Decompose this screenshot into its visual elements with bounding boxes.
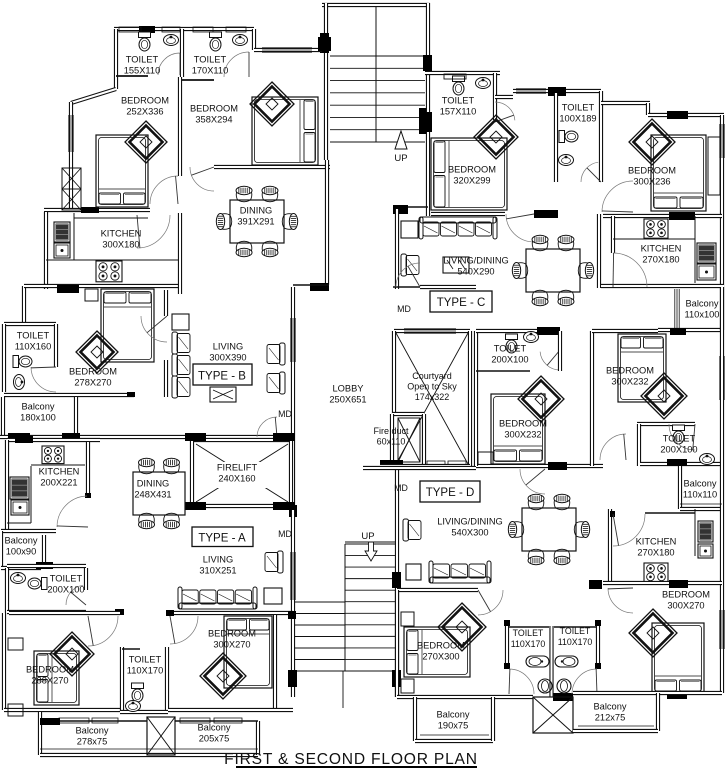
stair landing center line — [342, 671, 344, 708]
wc toilet center — [506, 334, 518, 353]
window courtyard bottom wall — [427, 461, 445, 467]
stair treads bottom left flight — [295, 601, 345, 603]
svg-text:300X232: 300X232 — [611, 376, 648, 386]
toilet 155 bottom wall — [116, 75, 148, 77]
wardrobe boxes bedroom 270X300 — [401, 612, 414, 626]
svg-text:240X160: 240X160 — [218, 473, 255, 483]
dining table Type B — [230, 200, 284, 243]
type A kitchen left wall — [5, 440, 9, 531]
diagonal outer wall — [71, 89, 116, 103]
svg-text:200X100: 200X100 — [47, 584, 84, 594]
balcony 212x75 — [656, 693, 660, 731]
window frames top wall — [119, 27, 141, 32]
bedroom 300X236 bottom wall — [603, 214, 722, 218]
svg-text:FIRELIFT: FIRELIFT — [217, 462, 258, 472]
basin toilet A — [11, 573, 26, 584]
basin toilet right — [700, 454, 715, 465]
door kitchen C — [613, 253, 647, 287]
right outer wall mid — [720, 287, 724, 464]
svg-text:Balcony: Balcony — [75, 725, 108, 735]
door toilet 157 — [495, 102, 515, 120]
svg-text:TOILET: TOILET — [663, 433, 696, 443]
svg-text:Balcony: Balcony — [21, 401, 54, 411]
basin toilet 110x160 — [14, 375, 25, 390]
svg-text:212x75: 212x75 — [595, 712, 626, 722]
dining table type C — [526, 249, 580, 292]
balcony bottom wall row — [0, 435, 295, 439]
svg-text:Fire duct: Fire duct — [373, 426, 409, 436]
svg-text:MD: MD — [278, 529, 292, 539]
svg-text:180x100: 180x100 — [20, 412, 56, 422]
svg-text:270X300: 270X300 — [422, 651, 459, 661]
left outer wall bedroom 252 — [69, 102, 73, 212]
svg-text:190x75: 190x75 — [438, 720, 469, 730]
door bedroom 252 — [150, 176, 178, 204]
kitchen B stove — [96, 261, 122, 282]
shaft crosshatch box — [62, 168, 81, 189]
svg-text:BEDROOM: BEDROOM — [606, 365, 654, 375]
svg-text:BEDROOM: BEDROOM — [69, 366, 117, 376]
type A living bottom wall — [9, 611, 120, 615]
svg-text:LIVING: LIVING — [203, 554, 233, 564]
door bedroom 320 — [506, 214, 534, 242]
svg-text:TOILET: TOILET — [562, 102, 595, 112]
column bottom wall D — [553, 693, 573, 701]
kitchen C bottom wall — [601, 284, 724, 288]
bedroom 320 bottom wall — [431, 212, 505, 216]
svg-text:TYPE - C: TYPE - C — [437, 297, 486, 309]
TV table type C — [443, 257, 469, 273]
diamond bedroom 300X270 D — [629, 609, 677, 657]
toilet 157 right wall — [493, 73, 497, 120]
bedroom 300X232 C-right bed — [618, 334, 666, 402]
toilet A bottom wall — [7, 610, 86, 614]
door bedroom 288 — [88, 616, 118, 646]
bed bedroom 300X270 D — [652, 623, 704, 694]
diamond bedroom 300X232 D — [518, 376, 564, 422]
svg-text:TOILET: TOILET — [129, 654, 162, 664]
stair landing right wall — [426, 162, 430, 216]
type C box — [430, 291, 492, 312]
svg-text:278X270: 278X270 — [74, 377, 111, 387]
kitchen B bottom wall — [44, 284, 181, 288]
twin toilet basin right — [555, 656, 578, 667]
kitchen D bottom wall — [603, 581, 722, 585]
column courtyard bottom — [380, 460, 403, 469]
window left bedroom 252 — [68, 115, 70, 152]
armchair type C — [401, 254, 419, 276]
svg-text:KITCHEN: KITCHEN — [641, 243, 682, 253]
bottom wall bedroom 288 — [4, 708, 120, 712]
door toilet A — [66, 585, 83, 605]
diamond bedroom 288 — [50, 632, 94, 676]
door toilet 155 — [158, 53, 180, 75]
hatch box between balconies A — [147, 717, 175, 755]
svg-text:110x110: 110x110 — [683, 489, 717, 499]
toilet 170 right wall — [252, 29, 256, 50]
window left wall C — [419, 108, 426, 134]
sofa type A — [179, 603, 256, 609]
right outer wall upper — [720, 115, 724, 287]
bed bedroom 300X232 D — [491, 394, 545, 464]
balcony 190x75 — [413, 697, 417, 741]
column stair right wall — [392, 572, 401, 588]
balcony 180x100 walls — [1, 397, 5, 437]
svg-text:157X110: 157X110 — [440, 106, 477, 116]
living B sofa left column — [172, 332, 190, 354]
svg-text:300X270: 300X270 — [213, 639, 250, 649]
balcony 110x100 — [674, 289, 676, 328]
svg-text:358X294: 358X294 — [195, 114, 232, 124]
door toilet center — [540, 352, 560, 370]
svg-text:TYPE - D: TYPE - D — [426, 487, 475, 499]
bedroom 278 bottom wall — [4, 393, 134, 397]
kitchen C left wall — [597, 214, 601, 288]
wall step toilet157 — [495, 95, 513, 99]
bedroom 288 left outer wall — [2, 613, 6, 710]
kitchen bottom wall jog — [24, 284, 46, 288]
column kitchen B — [57, 285, 79, 293]
svg-text:300X180: 300X180 — [102, 239, 139, 249]
kitchen D sink unit — [698, 521, 713, 542]
kitchen D stove — [644, 563, 668, 582]
outer wall step1 — [601, 101, 650, 105]
basin toilet 100x189 — [559, 155, 574, 166]
svg-text:UP: UP — [361, 531, 374, 542]
kitchen B sink — [54, 222, 70, 242]
window right wall bedroom D — [719, 610, 721, 649]
svg-text:200X100: 200X100 — [660, 444, 697, 454]
stair flight top edge — [345, 541, 396, 543]
window right wall mid — [719, 356, 721, 400]
svg-text:170X110: 170X110 — [192, 65, 229, 75]
basin toilet 170 — [233, 35, 248, 46]
toilet 157 fixtures — [453, 76, 465, 95]
svg-text:BEDROOM: BEDROOM — [26, 664, 74, 674]
kitchen D counter — [694, 509, 696, 556]
type A kitchen right wall — [86, 442, 90, 497]
type A kitchen stove — [42, 446, 64, 464]
svg-text:TOILET: TOILET — [194, 54, 227, 64]
svg-text:200X100: 200X100 — [491, 354, 528, 364]
bedroom 358 bottom wall — [214, 165, 330, 169]
kitchen C stove — [644, 219, 668, 238]
toilet 200X100 A walls — [7, 564, 86, 568]
living B TV table — [210, 387, 236, 402]
svg-text:270X180: 270X180 — [637, 547, 674, 557]
svg-text:100X189: 100X189 — [559, 113, 596, 123]
svg-text:300X390: 300X390 — [209, 352, 246, 362]
toilet divider wall — [180, 29, 184, 77]
column block stair left — [320, 33, 329, 53]
armchair type D — [403, 519, 421, 541]
diamond bedroom 300X232 right — [641, 373, 687, 419]
living B right wall — [291, 287, 295, 438]
left outer wall toilet 155 — [114, 29, 118, 89]
right outer wall kitchen D — [720, 509, 724, 693]
svg-text:200X221: 200X221 — [40, 477, 77, 487]
basin toilet center — [524, 332, 539, 343]
svg-text:DINING: DINING — [137, 478, 170, 488]
jog wall dining-living B — [293, 284, 329, 286]
bedside table bed 288 lower — [8, 704, 23, 716]
column block lobby left — [289, 505, 297, 517]
bed bedroom 320X299 — [431, 138, 507, 210]
svg-text:Balcony: Balcony — [4, 535, 37, 545]
svg-text:110x100: 110x100 — [685, 309, 720, 319]
kitchen B counter unit — [54, 243, 70, 258]
type A kitchen counter unit — [11, 500, 29, 515]
wall living D / bedroom — [397, 588, 478, 592]
svg-text:540X300: 540X300 — [451, 527, 488, 537]
door bedroom 300X270 D — [608, 588, 633, 613]
svg-text:BEDROOM: BEDROOM — [448, 164, 496, 174]
svg-text:LOBBY: LOBBY — [332, 383, 363, 393]
svg-text:110X170: 110X170 — [127, 665, 164, 675]
diamond bedroom 300X270 A — [200, 653, 246, 699]
svg-text:TOILET: TOILET — [560, 626, 591, 636]
svg-text:BEDROOM: BEDROOM — [628, 165, 676, 175]
armchair type A — [265, 551, 283, 573]
toilet 200X100 center walls — [474, 331, 478, 373]
svg-text:MD: MD — [394, 483, 408, 493]
door bedroom 300X232 D — [520, 469, 545, 494]
diamond bedroom 320 — [474, 115, 518, 159]
bed bedroom 300X270 A — [224, 616, 272, 688]
svg-text:KITCHEN: KITCHEN — [636, 536, 677, 546]
window frames bottom wall A — [59, 718, 89, 723]
svg-text:TYPE - B: TYPE - B — [198, 371, 246, 383]
column block stair right lower — [423, 112, 432, 132]
svg-text:BEDROOM: BEDROOM — [190, 103, 238, 113]
svg-text:Courtyard: Courtyard — [412, 371, 452, 381]
stair landing line — [330, 141, 424, 143]
firelift corner columns — [185, 433, 206, 441]
wc toilet 170 — [210, 32, 222, 51]
door toilet 110x160 — [31, 367, 56, 392]
type A kitchen sink — [10, 477, 29, 499]
svg-text:278x75: 278x75 — [77, 736, 108, 746]
bed bedroom 252 — [96, 135, 148, 207]
balcony A inner edge — [40, 720, 147, 722]
dining table type D — [522, 508, 576, 551]
column kitchen C — [669, 212, 695, 220]
svg-text:BEDROOM: BEDROOM — [121, 95, 169, 105]
svg-text:Open to Sky: Open to Sky — [407, 382, 457, 392]
toilet 200X100 right walls — [637, 422, 695, 426]
column top right — [667, 111, 688, 119]
column type D wall — [548, 462, 567, 470]
svg-text:320X299: 320X299 — [453, 175, 490, 185]
wall between bedroom 252 and 358 — [178, 77, 182, 176]
column bottom wall D right — [667, 691, 687, 699]
svg-text:TOILET: TOILET — [17, 330, 50, 340]
svg-text:Balcony: Balcony — [683, 478, 716, 488]
svg-text:248X431: 248X431 — [134, 489, 171, 499]
svg-text:LIVING/DINING: LIVING/DINING — [443, 255, 509, 265]
svg-text:252X336: 252X336 — [126, 106, 163, 116]
wc toilet 100x189 — [559, 131, 578, 143]
column top wall C — [548, 87, 566, 96]
courtyard cross — [396, 333, 468, 464]
type A kitchen counters — [30, 466, 32, 523]
toilet center right wall — [558, 331, 562, 371]
balcony 100x90 box — [1, 529, 56, 533]
toilet block top wall — [114, 27, 254, 31]
bedroom 278 left wall upper — [22, 286, 26, 324]
window top wall toilet — [139, 26, 155, 33]
left outer wall kitchen B — [44, 212, 48, 289]
column balcony 100x90 — [36, 562, 53, 569]
bottom wall type D — [397, 695, 533, 699]
toilet 170 bottom wall — [182, 79, 214, 81]
column kitchen D bottom — [589, 580, 602, 589]
svg-text:310X251: 310X251 — [199, 565, 236, 575]
svg-text:205x75: 205x75 — [199, 733, 230, 743]
door kitchen D — [613, 514, 645, 546]
UP arrow top stair — [395, 131, 407, 149]
main wall type D top — [363, 466, 476, 470]
svg-text:Balcony: Balcony — [436, 709, 469, 719]
column junction stair-left — [318, 37, 331, 51]
diamond bedroom 270X300 — [438, 603, 486, 651]
svg-text:174x322: 174x322 — [415, 392, 450, 402]
toilet 110X160 walls — [4, 322, 56, 326]
svg-text:KITCHEN: KITCHEN — [101, 228, 142, 238]
svg-text:TOILET: TOILET — [50, 573, 83, 583]
window left wall stair — [290, 552, 292, 600]
svg-text:MD: MD — [278, 409, 292, 419]
diamond bedroom 278 — [76, 331, 118, 373]
svg-text:BEDROOM: BEDROOM — [662, 589, 710, 599]
svg-text:DINING: DINING — [240, 205, 273, 215]
svg-text:Balcony: Balcony — [593, 701, 626, 711]
sofa type C — [420, 217, 496, 223]
door twin toilet right — [572, 669, 597, 694]
kitchen C counter edge — [613, 238, 695, 240]
door bedroom 300X270 A — [170, 616, 198, 644]
living C left wall — [395, 209, 399, 289]
svg-text:TOILET: TOILET — [494, 343, 527, 353]
bedside table bedroom D — [478, 452, 493, 465]
top wall C windows — [513, 89, 601, 93]
column lobby wall mid — [288, 611, 296, 619]
kitchen B counters — [74, 217, 148, 219]
svg-text:60x110: 60x110 — [377, 437, 406, 447]
courtyard walls — [394, 329, 470, 333]
svg-text:110X170: 110X170 — [558, 637, 593, 647]
column bedroom right top — [670, 328, 686, 335]
svg-text:250X651: 250X651 — [329, 394, 366, 404]
wc toilet 155 — [139, 32, 151, 51]
door kitchen B — [137, 215, 170, 248]
column bottom wall left — [40, 718, 60, 725]
bedroom 300X270 A right wall — [273, 615, 277, 710]
svg-text:BEDROOM: BEDROOM — [499, 418, 547, 428]
kitchen/dining divider wall — [178, 213, 182, 294]
column block stair right upper — [423, 55, 432, 71]
column kitchen top — [81, 207, 99, 213]
corner table type D — [406, 564, 421, 580]
toilet 157 top wall — [425, 71, 500, 75]
wc toilet A — [28, 578, 47, 590]
bed bedroom 288 — [34, 651, 79, 705]
column wall living A start — [166, 610, 174, 616]
svg-text:UP: UP — [394, 153, 407, 164]
kitchen D top wall — [645, 512, 695, 514]
svg-text:391X291: 391X291 — [237, 216, 274, 226]
jog wall landing to typeC — [397, 206, 428, 208]
wardrobe box bedroom 278 — [85, 289, 98, 301]
svg-text:Balcony: Balcony — [197, 722, 230, 732]
balcony 278x75 — [38, 712, 42, 755]
door bedroom 278 — [141, 316, 167, 342]
dining B right wall upper — [325, 160, 329, 285]
wc toilet 110x160 — [13, 356, 32, 368]
bedroom278/living divider — [164, 290, 168, 316]
type A box — [192, 527, 253, 547]
type D left wall — [395, 590, 399, 697]
bedroom 300X232 right walls — [590, 331, 594, 466]
bed bedroom 358 — [252, 97, 318, 165]
door MD type B — [257, 417, 277, 437]
sofa type D — [430, 577, 490, 583]
kitchen D left wall — [608, 509, 612, 585]
stairwell bottom walls — [291, 523, 295, 697]
svg-text:288X270: 288X270 — [31, 675, 68, 685]
svg-text:FIRST & SECOND FLOOR PLAN: FIRST & SECOND FLOOR PLAN — [224, 751, 478, 768]
door passage bedroom right — [600, 434, 626, 460]
svg-text:110X160: 110X160 — [15, 341, 52, 351]
svg-text:300X236: 300X236 — [633, 176, 670, 186]
outer top wall right — [648, 113, 724, 117]
svg-text:LIVING: LIVING — [213, 341, 243, 351]
svg-text:MD: MD — [397, 304, 411, 314]
bed bedroom 270X300 — [404, 627, 470, 677]
dining table type A — [133, 472, 185, 515]
svg-text:300X270: 300X270 — [667, 600, 704, 610]
svg-text:BEDROOM: BEDROOM — [417, 640, 465, 650]
column balcony B — [8, 433, 30, 441]
diamond bedroom 300X236 — [629, 119, 675, 165]
svg-text:110X170: 110X170 — [511, 639, 546, 649]
door MD type C — [396, 263, 420, 287]
bedroom 300X232 right top wall — [592, 329, 658, 333]
twin toilet wc left — [538, 679, 552, 693]
type A kitchen top wall — [7, 438, 100, 442]
twin toilet basin left — [526, 656, 549, 667]
column lobby top-left — [310, 283, 329, 291]
wc toilet right — [673, 425, 685, 444]
wardrobe bedroom 300X236 — [708, 137, 720, 195]
door twin toilet left — [509, 669, 534, 694]
window living B right wall — [290, 318, 292, 362]
door bedroom 270X300 — [478, 590, 503, 615]
toilet 100X189 walls — [554, 93, 558, 182]
svg-text:540X290: 540X290 — [457, 266, 494, 276]
type B box — [193, 364, 252, 385]
door kitchen A — [57, 496, 87, 527]
window right wall upper — [719, 124, 721, 158]
courtyard bottom wall — [380, 464, 470, 468]
lobby left wall lower — [291, 438, 295, 523]
firelift box — [192, 438, 291, 442]
bottom wall type A / stair — [168, 708, 293, 712]
door toilet 170 — [224, 52, 249, 77]
bed bedroom 278 — [101, 289, 154, 362]
top wall over bedroom 358 with window — [254, 48, 322, 52]
svg-text:300X232: 300X232 — [504, 429, 541, 439]
